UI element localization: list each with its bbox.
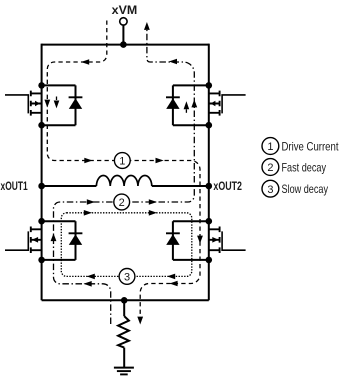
junction dot at xVM on top rail [120,41,127,48]
svg-text:Slow decay: Slow decay [282,182,329,196]
junction dot Q4 source on right rail [206,257,213,264]
node xOUT2: winding wire right [152,185,209,187]
arrowhead path2 up inside left low-side FET [51,233,57,241]
arrowhead path3 left on bottom side (left of circle 3) [87,274,95,280]
arrowhead path2 up toward xVM [144,22,150,30]
wire: xVM lead [122,25,124,44]
transistor Q2 symbol (MOSFET, gate at right) [209,91,246,116]
transistor Q4 low-side right: body-diode loop wires [173,221,209,260]
node marker: circle 2 on fast-decay path [114,194,130,210]
transistor Q3 symbol (MOSFET, gate at left-bottom) [5,227,42,254]
body diode D2 (right high-side) [166,97,180,109]
svg-text:xOUT2: xOUT2 [213,181,242,193]
arrowhead path1 down inside left high-side FET [44,100,50,108]
wire: bottom rail [42,299,209,301]
junction dot Q1 source on left rail [38,122,45,129]
arrowhead path2 up inside right high-side FET [191,100,197,108]
junction dot sense node on bottom rail [121,297,128,304]
node xVM: terminal circle [120,18,127,25]
node marker: circle 1 on drive-current path [114,153,130,169]
node marker: circle 3 on slow-decay path [119,269,135,285]
legend circle 2 [262,159,279,176]
arrowhead path2 right on horizontal below inductor (right of circle 2) [149,199,157,205]
svg-text:3: 3 [124,271,130,283]
resistor R sense [118,300,129,367]
wire: left rail [41,44,43,301]
junction dot xOUT2 [206,183,213,190]
arrowhead path2 right on horizontal below inductor (left of circle 2) [87,199,95,205]
inductor L motor winding (4 loops) [96,176,151,186]
body diode D3 (left low-side) [69,233,83,245]
arrowhead path1 right on mid horizontal (right of circle 1) [156,158,164,164]
short arrow: current direction in left high-side FET [54,97,60,109]
arrowhead path2 left on bottom horizontal [84,281,92,287]
arrowhead path3 right on top side (right) [149,210,157,216]
svg-text:2: 2 [267,162,273,174]
transistor Q3 low-side left: body-diode loop wires [42,221,76,260]
current path 1: drive current (dashed loop) [47,21,200,317]
transistor Q2 high-side right: body-diode loop wires [173,85,209,125]
arrowhead path1 left on bottom horizontal [169,281,177,287]
short arrow: current direction in right high-side FET [184,101,190,113]
wire: right rail [208,44,210,301]
ground [114,368,134,375]
junction dot Q2 source on right rail [206,122,213,129]
junction dot Q4 drain on right rail [206,218,213,225]
svg-text:xOUT1: xOUT1 [1,181,29,193]
svg-text:Fast decay: Fast decay [282,160,327,174]
junction dot xOUT1 [38,183,45,190]
wire: top rail (VM) [42,44,209,46]
legend circle 1 [262,138,279,155]
arrowhead path3 left on bottom side (right of circle 3) [167,274,175,280]
arrowhead path1 right on mid horizontal (left of circle 1) [84,158,92,164]
node xOUT1: winding wire left [42,185,97,187]
arrowhead path1 down toward sense resistor [137,317,143,325]
current path 3: slow decay (dotted loop) [61,213,192,277]
legend circle 3 [262,180,279,197]
junction dot Q2 drain on right rail [206,82,213,89]
transistor Q1 high-side left: body-diode loop wires [42,85,76,125]
svg-text:3: 3 [267,184,273,196]
arrowhead path1 down inside right low-side FET [197,236,203,244]
svg-text:2: 2 [119,197,125,209]
arrowhead path2 left on top horizontal toward xVM [169,59,177,65]
svg-text:1: 1 [267,141,273,153]
junction dot Q3 drain on left rail [38,218,45,225]
current path 2: fast decay (dash-dot loop) [54,30,195,324]
arrowhead path1 left on top horizontal [81,59,89,65]
svg-text:Drive Current: Drive Current [282,139,340,153]
svg-text:xVM: xVM [112,5,138,17]
arrowhead path3 right on top side (left) [84,210,92,216]
transistor Q4 symbol (MOSFET, gate at right-bottom) [209,227,246,254]
svg-text:1: 1 [119,155,125,167]
junction dot Q3 source on left rail [38,257,45,264]
transistor Q1 symbol (MOSFET, gate at left) [5,91,42,116]
body diode D4 (right low-side) [166,233,180,245]
junction dot Q1 drain on left rail [38,82,45,89]
body diode D1 (left high-side) [69,97,83,109]
